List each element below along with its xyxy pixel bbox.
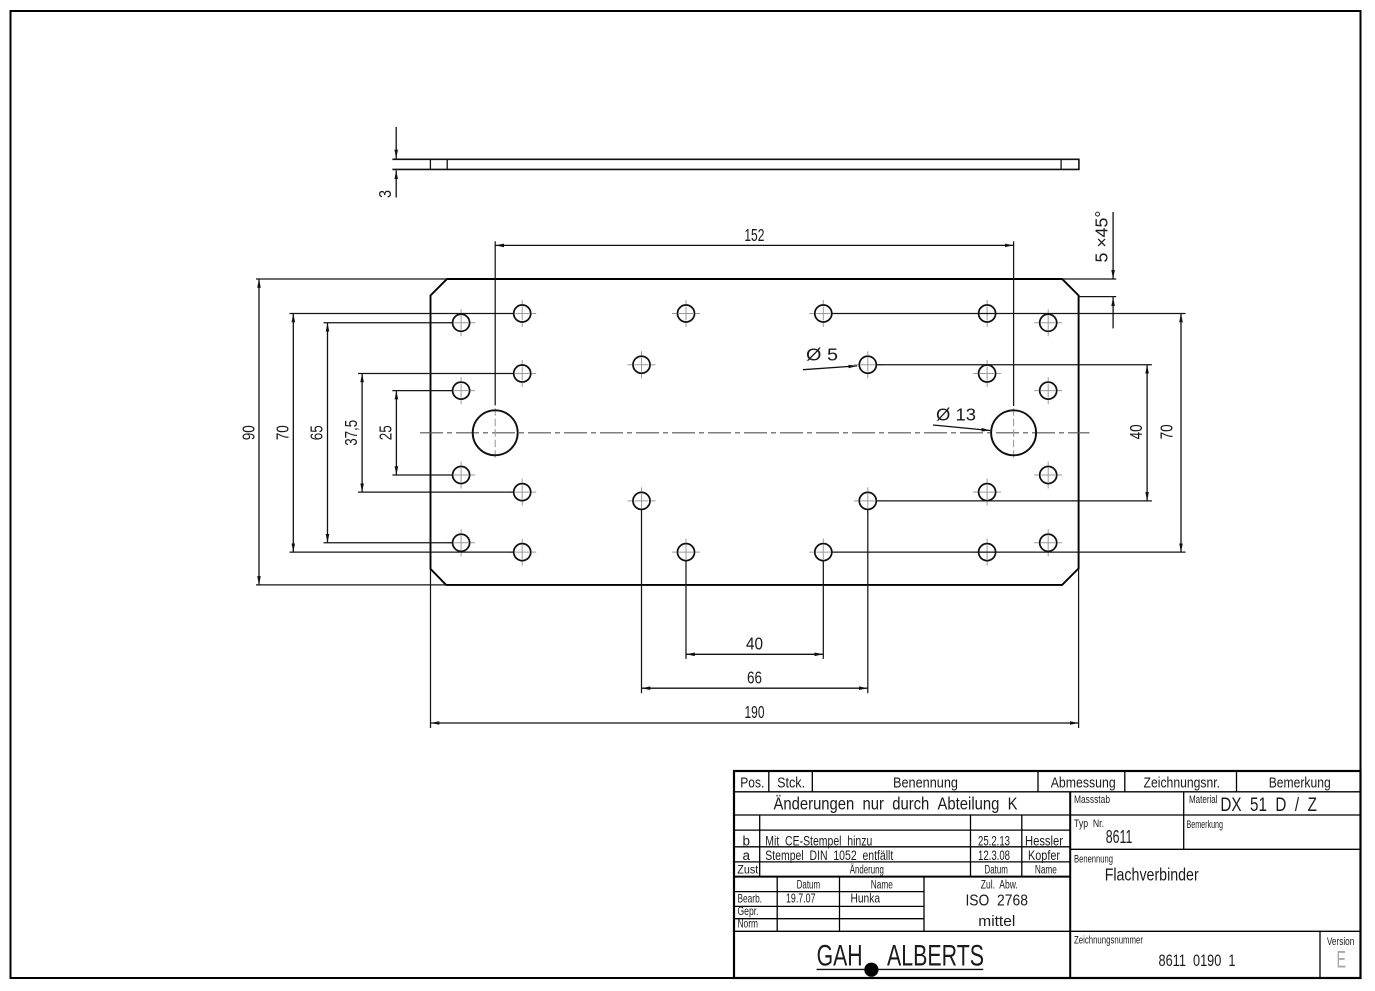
svg-text:Zust: Zust [737,864,759,876]
svg-text:3: 3 [375,190,395,198]
svg-text:190: 190 [745,702,765,722]
dimension 65 extension bottom [324,542,453,544]
hole D5 #22 at (686.0,552.1) [672,539,700,566]
revision col divider Datum [970,815,972,877]
svg-text:66: 66 [747,668,762,688]
svg-text:40: 40 [746,634,763,654]
extension line top edge to left (for 90) [256,278,447,280]
dimension 152 extension right (to D13 hole) [1013,241,1015,406]
svg-text:37,5: 37,5 [341,420,361,446]
svg-text:Name: Name [1035,864,1057,876]
svg-text:Bemerkung: Bemerkung [1187,819,1224,831]
hole D5 #16 at (987.1,492.1) [973,479,1001,506]
leader line for D13 callout [933,425,990,431]
signature row Bearb underline [734,905,924,907]
header cell divider Zeichnungsnr/Bemerkung [1236,771,1238,792]
extension line right edge downward (for 190) [1078,568,1080,728]
dimension 70 left extension top [290,313,514,315]
version cell divider [1319,931,1321,978]
svg-text:Typ Nr.: Typ Nr. [1074,818,1104,830]
revision header row underline (thick) [734,876,1070,878]
svg-text:E: E [1336,947,1346,974]
info row underline TypNr/Bemerkung [1070,848,1360,850]
hole D5 #20 at (1048.2,542.8) [1034,529,1062,556]
revision col divider Zust [759,815,761,877]
revision title row underline [734,814,1070,816]
dimension 152 line [495,244,1013,246]
svg-text:8611: 8611 [1106,827,1133,847]
svg-text:65: 65 [307,425,327,440]
svg-text:70: 70 [1157,424,1177,439]
svg-text:ISO 2768: ISO 2768 [965,893,1028,910]
signature header row underline [734,891,924,893]
title block header row underline [734,791,1361,793]
dimension 25 extension bottom [392,474,452,476]
hole D5 #8 at (867.8,364.7) [854,351,882,378]
svg-text:25.2.13: 25.2.13 [978,834,1010,849]
info row underline Massstab/Material [1070,814,1360,816]
dimension 65 line [327,323,329,543]
revision col divider Name [1021,815,1023,877]
chamfer dimension 5 upper arrow [1112,212,1114,279]
dimension 152 extension left (to D13 hole) [494,241,496,405]
extension line chamfer bottom edge right [1079,296,1117,298]
svg-text:Massstab: Massstab [1074,794,1110,806]
svg-text:GAH: GAH [817,939,863,972]
hole D5 #5 at (461.1,322.8) [447,309,475,336]
dimension 90 line [258,279,260,585]
svg-text:Stck.: Stck. [777,775,805,792]
dimension 66 extension left [641,509,643,693]
hole D5 #9 at (522.2,373.5) [508,360,536,387]
header cell divider Benennung/Abmessung [1037,771,1039,792]
hole D5 #1 at (522.2,313.5) [508,300,536,327]
dimension 37,5 extension top [358,373,514,375]
dimension 70 right extension top [832,313,1186,315]
hole D13 left [473,408,518,460]
svg-text:Datum: Datum [984,864,1008,876]
header cell divider Abmessung/Zeichnungsnr [1124,771,1126,792]
signature bottom line (full) [734,930,1361,932]
hole D5 #3 at (823.3,313.5) [809,300,837,327]
svg-text:Material: Material [1189,794,1218,806]
svg-text:5 ×45°: 5 ×45° [1092,211,1112,263]
hole D5 #21 at (522.2,552.1) [508,539,536,566]
dimension 70 right extension bottom [832,551,1186,553]
signature col divider labels [776,877,778,932]
horizontal centerline of plate [420,432,1090,434]
dimension 70 left line [292,314,294,553]
chamfer dimension 5 lower arrow [1112,297,1114,328]
extension line left edge downward (for 190) [430,569,432,728]
extension line bottom edge to left (for 90) [256,584,446,586]
svg-text:Abmessung: Abmessung [1051,775,1116,792]
signature col divider Name / Zul Abw [923,877,925,932]
hole D5 #2 at (686.0,313.5) [672,300,700,327]
dimension 40 right line [1146,365,1148,501]
svg-text:8611 0190 1: 8611 0190 1 [1159,951,1236,970]
hole D5 #17 at (641.5,500.9) [628,487,656,514]
dimension 40 right extension top [876,364,1152,366]
dimension 70 left extension bottom [290,551,514,553]
svg-text:Zul. Abw.: Zul. Abw. [981,879,1018,891]
header cell divider Pos/Stck [768,771,770,792]
svg-text:Zeichnungsnummer: Zeichnungsnummer [1074,935,1143,947]
dimension 37,5 extension bottom [358,491,514,493]
svg-text:Hessler: Hessler [1025,834,1063,849]
side view chamfer edge line left outer [429,159,431,169]
dimension 66 extension right [867,509,869,693]
dimension 3 (plate thickness) lower arrow [395,170,397,197]
header cell divider Stck/Benennung [811,771,813,792]
hole D5 #12 at (1048.2,390.6) [1034,377,1062,404]
svg-text:25: 25 [375,425,395,440]
svg-text:Benennung: Benennung [893,775,958,792]
svg-text:90: 90 [239,425,259,440]
hole D13 right [991,408,1036,460]
plate outline with chamfered corners [431,279,1079,585]
side view chamfer edge line left inner [446,159,448,169]
dimension 40 bottom line [686,653,823,655]
svg-text:Zeichnungsnr.: Zeichnungsnr. [1144,775,1221,792]
signature row Gepr underline [734,918,924,920]
hole D5 #4 at (987.1,313.5) [973,300,1001,327]
svg-text:Pos.: Pos. [740,775,764,792]
hole D5 #7 at (641.5,364.7) [628,351,656,378]
dimension 40 bottom extension left [685,561,687,659]
hole D5 #23 at (823.3,552.1) [809,539,837,566]
leader line for D5 callout [803,366,857,370]
svg-text:40: 40 [1126,424,1146,439]
svg-text:Flachverbinder: Flachverbinder [1105,864,1199,884]
info divider Massstab/Material [1183,792,1185,850]
title block outer border [734,771,1361,978]
side view chamfer edge line right [1060,159,1062,169]
hole D5 #24 at (987.1,552.1) [973,539,1001,566]
dimension 40 right extension bottom [876,500,1152,502]
hole D5 #14 at (1048.2,475.0) [1034,462,1062,489]
svg-text:Änderung: Änderung [850,864,884,876]
dimension 25 extension top [392,390,452,392]
revision empty row underline [734,829,1070,831]
svg-text:Norm: Norm [738,917,759,931]
svg-text:mittel: mittel [978,914,1015,930]
dimension 25 line [395,391,397,475]
extension line top edge to right (for chamfer dim) [1062,278,1116,280]
dimension 3 (plate thickness) upper arrow [395,127,397,158]
side view plate cross-section [392,159,1079,169]
svg-text:Ø 5: Ø 5 [806,345,838,365]
svg-text:Stempel DIN 1052 entfällt: Stempel DIN 1052 entfällt [765,848,893,863]
svg-text:a: a [743,848,751,863]
svg-text:Kopfer: Kopfer [1028,848,1060,863]
svg-text:ALBERTS: ALBERTS [887,939,984,972]
svg-text:Hunka: Hunka [851,890,881,905]
dimension 65 extension top [324,322,453,324]
svg-text:152: 152 [744,225,764,245]
logo dot [864,963,878,977]
svg-text:Ø 13: Ø 13 [936,405,976,425]
svg-text:DX 51 D / Z: DX 51 D / Z [1220,795,1317,816]
dimension 37,5 line [361,374,363,493]
svg-text:b: b [743,834,751,849]
signature col divider Datum [839,877,841,932]
svg-text:12.3.08: 12.3.08 [978,848,1010,863]
dimension 40 bottom extension right [822,561,824,659]
hole D5 #18 at (867.8,500.9) [854,487,882,514]
revision row a underline [734,861,1070,863]
svg-text:19.7.07: 19.7.07 [786,890,816,905]
dimension 70 right line [1180,314,1182,553]
svg-text:Änderungen nur durch Abteil: Änderungen nur durch Abteilung K [774,794,1018,814]
dimension 190 line [431,722,1079,724]
revision row b underline [734,846,1070,848]
hole D5 #15 at (522.2,492.1) [508,479,536,506]
hole D5 #10 at (987.1,373.5) [973,360,1001,387]
svg-text:70: 70 [272,425,292,440]
hole D5 #6 at (1048.2,322.8) [1034,309,1062,336]
dimension 66 line [642,687,868,689]
hole D5 #19 at (461.1,542.8) [447,529,475,556]
title block divider left/right blocks [1069,792,1071,978]
logo underline [817,968,984,970]
hole D5 #11 at (461.1,390.6) [447,377,475,404]
svg-text:Bemerkung: Bemerkung [1269,775,1331,792]
hole D5 #13 at (461.1,475.0) [447,462,475,489]
svg-text:Mit CE-Stempel hinzu: Mit CE-Stempel hinzu [765,834,872,849]
svg-text:Bearb.: Bearb. [738,891,763,905]
